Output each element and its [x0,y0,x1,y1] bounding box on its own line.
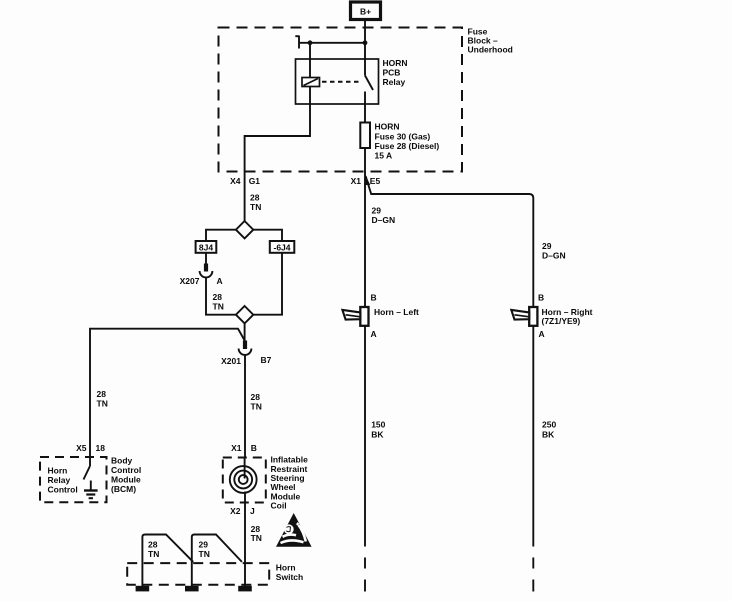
relay dashed control line [322,81,360,83]
fuse F30 (HORN) [360,123,370,149]
horn switch dashed box [127,563,269,585]
svg-text:D–GN: D–GN [372,215,396,225]
wire label 28 TN (to coil) [251,392,262,412]
power feed B+ [351,2,381,20]
wire X201 to clockspring [244,355,246,458]
ground G4 (horn switch right) [238,586,252,592]
wire label 29 D-GN (right) [542,241,566,260]
label Body Control Module (BCM) [111,456,141,495]
fuse block underhood dashed box [219,28,463,172]
wire label 29 D-GN (left) [372,206,396,225]
svg-text:28: 28 [97,389,107,399]
horn right icon [511,307,537,326]
BCM switch blade [84,457,91,480]
svg-text:Body: Body [111,456,133,466]
svg-text:E5: E5 [370,176,381,186]
wire label 250 BK [542,420,556,440]
svg-text:-6J4: -6J4 [273,243,290,253]
svg-text:J: J [250,506,255,516]
ground G1 (BCM internal) [84,481,98,499]
relay coil [302,78,320,87]
horn left icon [342,307,368,326]
svg-text:TN: TN [148,549,159,559]
svg-text:B: B [251,443,257,453]
svg-text:TN: TN [251,533,262,543]
label Horn Switch [276,563,303,583]
svg-text:X4: X4 [230,176,241,186]
wire branch to BCM (horn relay control) [90,329,245,457]
wire 8J4 to X207 [205,253,207,264]
wire label 29 TN (blade 2) [199,540,210,560]
wire X207 to splice S2 [206,278,236,315]
inline connector X201 (pin and socket) [239,341,252,355]
svg-text:TN: TN [213,301,224,311]
svg-text:HORN: HORN [375,122,400,132]
svg-text:B+: B+ [360,7,371,17]
wire dashed continuation bottom right horn [532,558,534,592]
svg-text:(7Z1/YE9): (7Z1/YE9) [542,316,581,326]
svg-text:250: 250 [542,420,556,430]
wire splice to -6J4 [253,230,282,241]
BCM dashed box [40,457,107,502]
splice diamond S1 [236,221,253,238]
svg-text:Control: Control [111,465,141,475]
svg-text:A: A [217,276,223,286]
svg-text:18: 18 [96,443,106,453]
box 8J4 [196,241,217,253]
relay U1 box [296,59,379,104]
svg-text:X201: X201 [221,356,241,366]
svg-text:Coil: Coil [271,501,287,511]
svg-text:BK: BK [371,430,384,440]
svg-text:TN: TN [251,402,262,412]
wire splice to 8J4 [206,230,236,241]
airbag warning symbol [276,513,312,547]
svg-text:TN: TN [250,202,261,212]
clockspring dashed box [223,458,266,503]
node junction dot (coil feed) [308,40,313,45]
svg-text:Relay: Relay [383,77,406,87]
svg-text:(BCM): (BCM) [111,484,136,494]
label X201 pin B7 [221,355,271,366]
svg-text:B7: B7 [261,355,272,365]
horn switch blade 1 [142,535,193,587]
label HORN PCB Relay [383,58,408,87]
wire bus to relay coil [309,43,311,78]
splice diamond S2 [236,306,253,323]
wire relay feed bus [299,42,365,44]
wire dashed continuation bottom left horn [364,558,366,592]
label Inflatable Restraint Steering Wheel Module Coil [271,455,309,511]
svg-text:BK: BK [542,430,555,440]
svg-text:PCB: PCB [383,68,401,78]
wire B+ to relay bus [364,20,366,43]
label HORN Fuse 30 [375,122,440,161]
svg-text:B: B [371,293,377,303]
clockspring coil spiral [230,458,257,493]
box -6J4 [270,241,295,253]
svg-text:TN: TN [97,399,108,409]
svg-text:8J4: 8J4 [199,243,213,253]
label X207 pin A [180,276,223,286]
wire fuse to horn left (long vertical) [364,148,366,547]
wire label 150 BK [371,420,385,440]
wire clockspring to horn switch [244,492,246,564]
svg-text:G1: G1 [249,176,261,186]
svg-text:Switch: Switch [276,572,303,582]
label X1 B (clockspring) [231,443,257,453]
wire splice S2 to X201 [244,323,246,341]
svg-text:X5: X5 [76,443,87,453]
ground G2 (horn switch left) [136,586,150,592]
label X5 18 [76,443,105,453]
ground G3 (horn switch middle) [185,586,199,592]
svg-text:D–GN: D–GN [542,250,566,260]
svg-text:Control: Control [48,485,78,495]
connector X1 E5 label [351,176,381,186]
wire branch to right horn [366,176,534,547]
wire label 29 TN [250,193,261,212]
wire center through horn switch [244,563,246,586]
wire label 28 TN (blade 1) [148,540,159,560]
wire label 28 TN [213,292,224,311]
label Fuse Block - Underhood [468,27,513,55]
svg-text:X2: X2 [230,506,241,516]
svg-text:28: 28 [148,540,158,550]
wire label 28 TN (horn switch feed) [251,524,262,543]
svg-text:A: A [371,329,377,339]
horn switch blade 2 [192,535,242,587]
svg-text:B: B [538,293,544,303]
wire -6J4 to splice S2 [253,253,282,315]
svg-text:Horn: Horn [48,466,68,476]
svg-text:Module: Module [111,475,141,485]
svg-text:Fuse 30 (Gas): Fuse 30 (Gas) [375,132,431,142]
svg-text:TN: TN [199,549,210,559]
svg-text:HORN: HORN [383,58,408,68]
svg-text:29: 29 [199,540,209,550]
svg-text:A: A [539,329,545,339]
svg-text:X207: X207 [180,276,200,286]
inline connector X207 (pin and socket) [200,264,213,278]
svg-text:Fuse 28 (Diesel): Fuse 28 (Diesel) [375,141,440,151]
contact tick at bus left end [298,36,300,49]
relay switch (blade) [365,43,373,123]
svg-text:Horn – Left: Horn – Left [374,307,419,317]
connector X4 label [230,176,260,186]
label Horn Relay Control [48,466,78,495]
connector wedge at X1 E5 [366,176,371,186]
node junction dot (switch feed) [363,40,368,45]
svg-text:Underhood: Underhood [468,45,513,55]
wire coil to X4 G1 [245,87,310,222]
svg-text:X1: X1 [351,176,362,186]
label X2 J [230,506,255,516]
svg-text:Relay: Relay [48,475,71,485]
svg-text:150: 150 [371,420,385,430]
wire label 28 TN (BCM branch) [97,389,108,409]
svg-text:15 A: 15 A [375,151,393,161]
svg-text:28: 28 [251,392,261,402]
svg-text:Horn: Horn [276,563,296,573]
svg-text:X1: X1 [231,443,242,453]
